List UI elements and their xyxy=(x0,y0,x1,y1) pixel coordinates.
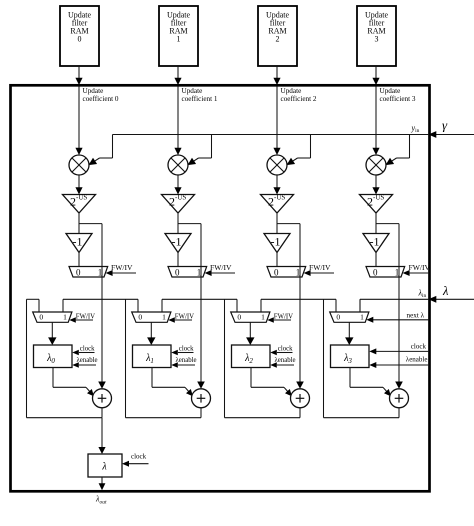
mux FW/IV upper (column 3) xyxy=(366,267,405,278)
svg-text:coefficient 3: coefficient 3 xyxy=(380,95,416,103)
wire: scaler 2 output branch xyxy=(277,213,300,234)
multiplier (coefficient 3 x y_in) xyxy=(366,155,386,175)
clock input (register 1) xyxy=(171,346,194,356)
wire: lambda chain into mux (column 1) xyxy=(63,299,162,312)
svg-text:Update: Update xyxy=(380,87,401,95)
lambda enable input (register 0) xyxy=(72,357,97,368)
wire: register 3 to adder xyxy=(350,368,391,397)
svg-text:λenable: λenable xyxy=(275,357,296,364)
select FW/IV (upper mux 1) xyxy=(205,263,235,276)
inverter -1 (column 1) xyxy=(165,234,191,253)
wire: accumulator feedback loop (column 0) xyxy=(27,299,103,417)
svg-text:-1: -1 xyxy=(73,235,83,249)
svg-text:-1: -1 xyxy=(271,235,281,249)
inverter -1 (column 0) xyxy=(66,234,92,253)
svg-text:0: 0 xyxy=(237,312,241,321)
wire: update coefficient 1 to multiplier xyxy=(174,87,181,156)
wire: y_in tap to multiplier 3 xyxy=(386,135,410,166)
wire: lambda chain into mux (column 2) xyxy=(162,299,261,312)
svg-text:1: 1 xyxy=(63,312,67,321)
wire: update coefficient 0 to multiplier xyxy=(75,87,82,156)
select FW/IV (lower mux 1) xyxy=(168,314,194,323)
adder (column 3) xyxy=(390,389,409,408)
label lambda_in xyxy=(418,289,427,300)
lambda enable input (register 3) xyxy=(369,356,429,369)
RAM block: Update filter RAM 3 xyxy=(357,6,396,66)
wire: multiplier 2 to scaler xyxy=(273,175,280,195)
wire: adder 0 output to output register xyxy=(98,418,105,454)
clock input (register 0) xyxy=(72,346,95,356)
svg-text:λ: λ xyxy=(442,284,449,298)
lambda enable input (register 1) xyxy=(171,357,196,368)
adder (column 1) xyxy=(192,389,211,408)
svg-text:1: 1 xyxy=(177,35,181,44)
svg-text:λenable: λenable xyxy=(406,356,428,364)
wire: bypass column 3 to adder xyxy=(395,224,403,389)
svg-text:1: 1 xyxy=(360,312,364,321)
adder (column 0) xyxy=(93,389,112,408)
svg-text:0: 0 xyxy=(138,312,142,321)
svg-text:0: 0 xyxy=(76,267,81,277)
wire: update coefficient 2 to multiplier xyxy=(273,87,280,156)
RAM block: Update filter RAM 2 xyxy=(258,6,297,66)
wire: accumulator feedback loop (column 1) xyxy=(126,299,202,417)
wire: inverter 1 to mux input 0 xyxy=(177,253,179,267)
svg-text:FW/IV: FW/IV xyxy=(175,314,194,321)
svg-text:clock: clock xyxy=(411,343,427,351)
svg-text:FW/IV: FW/IV xyxy=(210,263,232,272)
wire: accumulator feedback loop (column 3) xyxy=(324,299,400,417)
wire: y_in tap to multiplier 1 xyxy=(188,135,212,166)
svg-text:coefficient 0: coefficient 0 xyxy=(83,95,119,103)
wire: lambda_in line xyxy=(360,299,429,312)
clock input (output register) xyxy=(122,453,149,467)
svg-text:λenable: λenable xyxy=(77,357,98,364)
svg-text:clock: clock xyxy=(179,346,194,353)
wire: scaler 1 output branch xyxy=(178,213,201,234)
inverter -1 (column 3) xyxy=(363,234,389,253)
RAM block: Update filter RAM 0 xyxy=(60,6,99,66)
register lambda_3 xyxy=(331,345,370,368)
svg-text:1: 1 xyxy=(261,312,265,321)
clock input (register 2) xyxy=(270,346,293,356)
mux FW/IV upper (column 2) xyxy=(267,267,306,278)
wire: bypass column 2 to adder xyxy=(296,224,304,389)
wire: register 1 to adder xyxy=(152,368,193,397)
svg-text:clock: clock xyxy=(80,346,95,353)
svg-text:Update: Update xyxy=(182,87,203,95)
mux hold/shift lower (column 0) xyxy=(33,312,72,322)
svg-text:2: 2 xyxy=(276,35,280,44)
gain scaler 2^-US (column 3) xyxy=(360,194,393,214)
wire: adder 0 output xyxy=(101,408,103,418)
wire: update coefficient 3 to multiplier xyxy=(372,87,379,156)
svg-text:next λ: next λ xyxy=(407,312,425,320)
gain scaler 2^-US (column 1) xyxy=(162,194,195,214)
wire: mux to register lambda1 xyxy=(147,322,155,345)
svg-text:FW/IV: FW/IV xyxy=(111,263,133,272)
adder (column 2) xyxy=(291,389,310,408)
multiplier (coefficient 2 x y_in) xyxy=(267,155,287,175)
clock input (register 3) xyxy=(369,343,429,355)
svg-text:0: 0 xyxy=(274,267,279,277)
gain scaler 2^-US (column 2) xyxy=(261,194,294,214)
label: Update coefficient 2 xyxy=(281,87,317,103)
svg-text:λ: λ xyxy=(101,462,107,473)
wire: inverter 3 to mux input 0 xyxy=(375,253,377,267)
wire: register 2 to adder xyxy=(251,368,292,397)
wire: multiplier 3 to scaler xyxy=(372,175,379,195)
select FW/IV (upper mux 0) xyxy=(106,263,136,276)
label: Update coefficient 1 xyxy=(182,87,218,103)
svg-text:FW/IV: FW/IV xyxy=(409,263,431,272)
svg-text:coefficient 1: coefficient 1 xyxy=(182,95,218,103)
wire: bypass column 0 to adder xyxy=(98,224,106,389)
lambda input (external) xyxy=(428,284,474,303)
svg-text:-1: -1 xyxy=(370,235,380,249)
RAM block: Update filter RAM 1 xyxy=(159,6,198,66)
select FW/IV (upper mux 2) xyxy=(304,263,334,276)
select FW/IV (lower mux 0) xyxy=(69,314,95,323)
system boundary box xyxy=(11,85,430,491)
label y_in xyxy=(411,124,420,135)
mux hold/shift lower (column 3) xyxy=(330,312,369,322)
svg-text:1: 1 xyxy=(162,312,166,321)
select FW/IV (upper mux 3) xyxy=(403,263,431,276)
mux hold/shift lower (column 1) xyxy=(132,312,171,322)
svg-text:Update: Update xyxy=(281,87,302,95)
multiplier (coefficient 1 x y_in) xyxy=(168,155,188,175)
register lambda_2 xyxy=(232,345,271,368)
mux hold/shift lower (column 2) xyxy=(231,312,270,322)
svg-text:0: 0 xyxy=(175,267,180,277)
wire: RAM 0 output into boundary xyxy=(75,66,82,85)
gamma input (external) xyxy=(428,118,474,138)
label: Update coefficient 0 xyxy=(83,87,119,103)
multiplier (coefficient 0 x y_in) xyxy=(69,155,89,175)
svg-text:0: 0 xyxy=(39,312,43,321)
svg-text:γ: γ xyxy=(442,118,448,133)
wire: mux to register lambda0 xyxy=(48,322,56,345)
mux FW/IV upper (column 1) xyxy=(168,267,207,278)
svg-text:-1: -1 xyxy=(172,235,182,249)
wire: RAM 2 output into boundary xyxy=(273,66,280,85)
svg-text:3: 3 xyxy=(375,35,379,44)
wire: accumulator feedback loop (column 2) xyxy=(225,299,301,417)
lambda enable input (register 2) xyxy=(270,357,295,368)
wire: mux to register lambda2 xyxy=(246,322,254,345)
wire: RAM 1 output into boundary xyxy=(174,66,181,85)
register lambda_0 xyxy=(34,345,73,368)
register lambda_1 xyxy=(133,345,172,368)
gain scaler 2^-US (column 0) xyxy=(63,194,96,214)
svg-text:λenable: λenable xyxy=(176,357,197,364)
mux FW/IV upper (column 0) xyxy=(69,267,108,278)
wire: multiplier 0 to scaler xyxy=(75,175,82,195)
wire: RAM 3 output into boundary xyxy=(372,66,379,85)
svg-text:FW/IV: FW/IV xyxy=(274,314,293,321)
svg-text:clock: clock xyxy=(131,453,147,461)
svg-text:0: 0 xyxy=(336,312,340,321)
wire: multiplier 1 to scaler xyxy=(174,175,181,195)
wire: mux to register lambda3 xyxy=(345,322,353,345)
svg-text:0: 0 xyxy=(373,267,378,277)
label: Update coefficient 3 xyxy=(380,87,416,103)
wire: lambda chain into mux (column 0) xyxy=(27,299,64,312)
wire: adder 2 output xyxy=(299,408,301,418)
wire: lambda chain into mux (column 3) xyxy=(261,299,360,312)
wire: scaler 3 output branch xyxy=(376,213,399,234)
wire: scaler 0 output branch xyxy=(79,213,102,234)
label lambda_out xyxy=(95,495,107,506)
output register lambda xyxy=(88,454,122,477)
wire: bypass column 1 to adder xyxy=(197,224,205,389)
wire: y_in tap to multiplier 2 xyxy=(287,135,311,166)
inverter -1 (column 2) xyxy=(264,234,290,253)
wire: adder 1 output xyxy=(200,408,202,418)
svg-text:coefficient 2: coefficient 2 xyxy=(281,95,317,103)
svg-text:clock: clock xyxy=(278,346,293,353)
wire: y_in tap to multiplier 0 xyxy=(89,135,113,166)
svg-text:FW/IV: FW/IV xyxy=(76,314,95,321)
wire: output register to lambda_out xyxy=(99,477,106,490)
svg-text:FW/IV: FW/IV xyxy=(309,263,331,272)
select FW/IV (lower mux 2) xyxy=(267,314,293,323)
wire: y_in distribution line xyxy=(113,134,430,136)
wire: register 0 to adder xyxy=(53,368,94,397)
wire: adder 3 output xyxy=(398,408,400,418)
svg-text:0: 0 xyxy=(78,35,82,44)
svg-text:Update: Update xyxy=(83,87,104,95)
select next-lambda (lower mux 3) xyxy=(366,312,429,323)
wire: inverter 2 to mux input 0 xyxy=(276,253,278,267)
wire: inverter 0 to mux input 0 xyxy=(78,253,80,267)
